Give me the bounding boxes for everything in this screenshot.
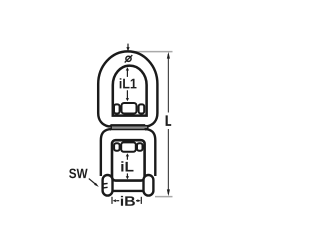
label L (166, 115, 172, 126)
diameter symbol (126, 56, 131, 61)
pin end left (capsule) (103, 175, 113, 196)
dimension line L (167, 54, 169, 113)
nut in eye: center face (122, 103, 137, 114)
screw slot marks (103, 182, 108, 185)
pin end right (capsule) (144, 175, 154, 196)
swivel collar (111, 126, 148, 130)
label SW (69, 169, 88, 179)
jaw window (112, 140, 145, 180)
arrowhead L bottom (167, 189, 170, 196)
label iB (121, 196, 135, 206)
eye outline (98, 51, 157, 126)
jaw outline left (101, 129, 112, 176)
label iL1 (120, 78, 137, 88)
eye inner opening (113, 66, 147, 116)
nut in window: center face (121, 142, 136, 151)
iB arrow right (137, 199, 140, 202)
extension line bottom (gray) (155, 196, 173, 198)
nut in eye: left facet (114, 104, 120, 113)
pin bottom edge (112, 190, 145, 192)
nut in window: left facet (114, 143, 120, 150)
iB arrow left (113, 199, 116, 202)
jaw outline right (145, 129, 156, 176)
label iL (121, 161, 133, 171)
dimension iL arrow down (126, 173, 128, 176)
nut in eye: right facet (139, 104, 145, 113)
SW leader line (89, 179, 97, 185)
nut in window: right facet (137, 143, 143, 150)
dimension iB tick right (140, 197, 142, 204)
arrowhead L top (167, 52, 170, 59)
dimension iB tick left (111, 197, 113, 204)
pointer arrow at eye top (127, 44, 129, 48)
extension line top (gray) (132, 51, 173, 53)
dimension iL1 arrow up (126, 67, 129, 70)
dimension iL arrow up (126, 153, 129, 156)
dimension iL1 arrow down (126, 90, 128, 98)
